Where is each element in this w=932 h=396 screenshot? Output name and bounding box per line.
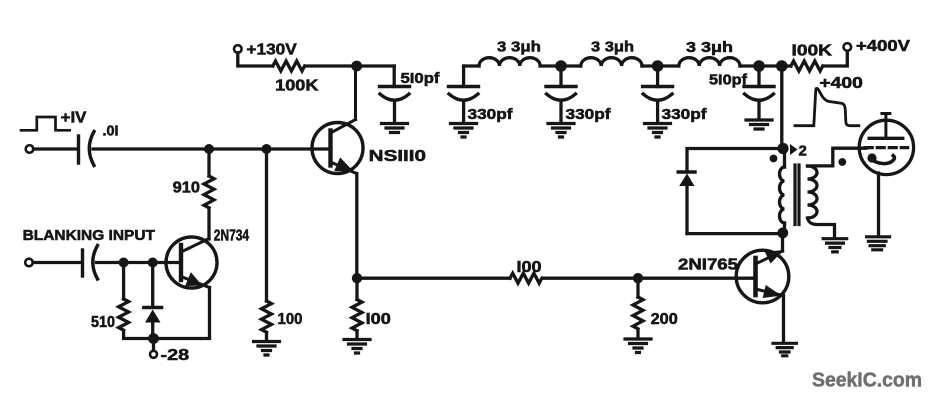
wire L2 to node E — [642, 64, 658, 67]
loop bottom wire — [687, 232, 783, 235]
svg-text:3 3μh: 3 3μh — [591, 39, 634, 55]
wire blanking to C2 — [33, 261, 82, 264]
ground R4 — [254, 342, 280, 356]
wire node E to L3 — [658, 64, 679, 67]
wire R8 to +400V terminal — [824, 51, 848, 67]
node B — [262, 144, 272, 154]
terminal -28 — [152, 339, 155, 351]
wire node B down — [265, 149, 268, 301]
diode D2 — [678, 170, 695, 173]
wire R2 to Q2 collector — [207, 208, 210, 239]
ground C6 — [645, 124, 671, 138]
input pulse waveform +1V — [21, 117, 70, 130]
svg-text:3 3μh: 3 3μh — [497, 39, 541, 55]
svg-text:100K: 100K — [275, 78, 319, 95]
svg-text:100: 100 — [278, 311, 303, 328]
wire R4 to ground — [265, 333, 268, 341]
terminal +400V — [844, 43, 852, 51]
tube grid dashes — [865, 146, 907, 149]
capacitor C1 .01 — [77, 136, 80, 163]
wire node K down — [636, 278, 639, 297]
wire R3 to bottom rail — [124, 331, 154, 339]
wire L1 to node D — [540, 64, 561, 67]
wire R5 to ground — [355, 331, 358, 339]
wire R1 to node C and C3 — [306, 64, 394, 67]
node G — [776, 60, 788, 72]
ground C3 — [382, 124, 408, 133]
ground R5 — [344, 340, 370, 354]
svg-text:+130V: +130V — [246, 42, 297, 59]
node E — [652, 60, 664, 72]
resistor R4 100 — [262, 301, 272, 332]
ground C5 — [548, 124, 574, 138]
transformer T1 secondary — [808, 166, 818, 218]
tube plate — [869, 137, 903, 140]
capacitor C4 330pf — [449, 85, 479, 88]
node D — [555, 60, 567, 72]
capacitor C6 330pf — [656, 66, 659, 87]
wire node L down — [122, 263, 125, 300]
wire input to C1 — [34, 147, 79, 150]
node M — [148, 258, 158, 268]
ground R7 — [625, 339, 651, 353]
wire node J to R5 — [355, 278, 358, 299]
terminal blanking input — [25, 259, 33, 267]
bottom rail wire — [357, 277, 510, 280]
svg-text:910: 910 — [173, 180, 200, 197]
svg-text:BLANKING INPUT: BLANKING INPUT — [23, 228, 156, 244]
resistor R3 510 — [119, 299, 129, 330]
wire Q2 emitter down to node N — [154, 288, 210, 339]
inductor L3 — [679, 58, 740, 66]
svg-text:I00: I00 — [366, 311, 391, 328]
node h2 — [777, 143, 788, 154]
terminal +130V — [234, 45, 242, 53]
capacitor C4 330pf stem — [462, 66, 465, 87]
ground C4 — [451, 124, 477, 138]
wire node A down — [207, 149, 210, 176]
ground tube — [867, 237, 890, 250]
wire node D to L2 — [561, 64, 581, 67]
svg-text:3 3μh: 3 3μh — [686, 40, 733, 56]
ground secondary — [823, 239, 847, 252]
svg-text:2: 2 — [799, 143, 807, 160]
wire L3 to nodes F G — [740, 64, 791, 67]
wire C2 to Q2 base — [97, 261, 182, 264]
svg-text:330pf: 330pf — [662, 106, 708, 123]
tube cathode lead to ground — [877, 173, 880, 236]
waveform +400 — [795, 88, 859, 125]
transformer T1 core — [795, 165, 799, 225]
svg-text:200: 200 — [651, 311, 678, 328]
inductor L2 — [581, 58, 642, 66]
wire Q1 emitter down — [355, 174, 358, 279]
node A — [204, 144, 214, 154]
inductor L1 3.3uh — [479, 58, 540, 66]
resistor R6 100 — [510, 273, 542, 283]
resistor R5 100 — [352, 300, 362, 331]
svg-text:+400: +400 — [819, 75, 862, 92]
node J — [352, 273, 362, 283]
resistor R2 910 — [204, 176, 214, 208]
svg-text:2NI765: 2NI765 — [678, 257, 738, 274]
wire R6 to Q3 base — [544, 277, 756, 280]
ground C7 — [746, 120, 772, 129]
terminal input 1 — [26, 145, 34, 153]
transistor Q1 NS1110 — [312, 123, 363, 174]
node F — [753, 60, 765, 72]
svg-text:2N734: 2N734 — [214, 228, 250, 245]
node I collector — [777, 228, 788, 239]
svg-text:.0I: .0I — [103, 123, 119, 140]
wire Q3 emitter down — [782, 296, 785, 343]
svg-text:-28: -28 — [161, 347, 190, 364]
resistor R7 200 — [633, 297, 643, 329]
svg-text:SeekIC.com: SeekIC.com — [812, 369, 922, 392]
ground Q3 emitter — [773, 343, 796, 356]
capacitor C3 510pf — [393, 66, 396, 87]
capacitor C7 510pf — [757, 66, 760, 87]
node L — [119, 258, 129, 268]
transformer T1 primary — [783, 149, 786, 168]
capacitor C2 — [81, 250, 84, 276]
svg-text:5I0pf: 5I0pf — [401, 70, 441, 87]
wire C1 to Q1 base — [93, 147, 327, 150]
svg-text:NSIII0: NSIII0 — [369, 148, 426, 165]
wire secondary bottom to ground — [808, 218, 835, 238]
capacitor C5 330pf — [559, 66, 562, 87]
node C — [351, 61, 362, 72]
node N — [148, 333, 159, 344]
svg-text:I00: I00 — [517, 259, 542, 276]
wire secondary top to tube — [808, 148, 867, 166]
svg-text:+IV: +IV — [61, 110, 88, 127]
wire node G down to node h2 — [780, 66, 783, 149]
phasing dot secondary — [838, 158, 846, 166]
tube V1 — [859, 120, 913, 174]
node K — [633, 273, 643, 283]
wire +130V terminal down and right — [238, 53, 273, 66]
tube plate lead — [882, 114, 890, 139]
loop top wire from h2 — [687, 149, 783, 173]
svg-text:I00K: I00K — [792, 43, 833, 60]
wire Q3 collector to node I — [781, 233, 784, 251]
resistor R1 100K — [273, 61, 305, 71]
diode D1 — [151, 263, 154, 308]
svg-text:+400V: +400V — [856, 38, 911, 55]
tube cathode — [867, 153, 876, 162]
transistor Q2 2N734 — [166, 237, 217, 288]
svg-text:330pf: 330pf — [566, 106, 612, 123]
resistor R8 100K — [791, 61, 823, 71]
svg-text:330pf: 330pf — [468, 106, 514, 123]
wire R7 to ground — [636, 331, 639, 338]
label h2 — [790, 144, 798, 155]
transistor Q3 2N1765 — [736, 250, 789, 303]
svg-text:510: 510 — [91, 314, 115, 331]
svg-text:5I0pf: 5I0pf — [709, 72, 748, 89]
wire C4 to L1 — [464, 64, 479, 67]
phasing dot primary — [770, 155, 778, 163]
